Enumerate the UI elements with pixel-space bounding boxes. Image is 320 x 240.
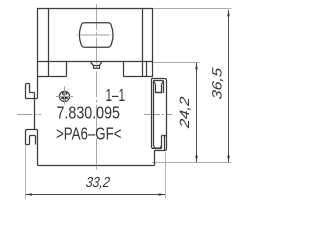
- upper hook inner step: [34, 93, 36, 99]
- hook inner vertical: [164, 136, 166, 151]
- box right wall lower: [152, 62, 154, 78]
- centerline rail axis: [144, 114, 173, 116]
- lower hook inner horizontal: [30, 135, 36, 137]
- box inner wall right: [142, 9, 144, 77]
- box inner wall left: [48, 9, 50, 77]
- rail channel inner left wall: [153, 81, 155, 147]
- flange right inner wall: [146, 62, 148, 77]
- extension line bottom right: [152, 162, 231, 164]
- housing box bottom line: [37, 61, 153, 63]
- extension line bottom right vertical: [165, 152, 167, 199]
- dimension 36,5 arrows: [227, 10, 230, 17]
- centerline hole horizontal: [77, 34, 117, 36]
- latch funnel right slant: [99, 62, 102, 65]
- centerline left clip axis: [18, 114, 42, 116]
- box left wall lower: [37, 62, 39, 77]
- hook step vertical: [161, 136, 163, 149]
- rail channel outer left wall: [152, 79, 162, 149]
- upper hook inner vertical: [29, 84, 31, 93]
- lower hook inner step: [35, 136, 37, 145]
- slot bottom left slant: [154, 146, 155, 148]
- upper hook bottom: [26, 98, 38, 100]
- extension line mid right: [153, 62, 200, 64]
- pocket left slant: [154, 81, 156, 85]
- svg-text:36,5: 36,5: [210, 66, 225, 100]
- screw crosshair vertical: [64, 86, 66, 105]
- lower hook top: [26, 130, 38, 145]
- extension line bottom left vertical: [25, 146, 27, 199]
- slot bottom right slant: [159, 146, 162, 148]
- hook step horizontal: [162, 135, 167, 137]
- barrel hole: [79, 23, 113, 47]
- lower hook inner vertical: [29, 136, 31, 145]
- screw crosshair horizontal: [56, 96, 73, 98]
- screw inner mark: [61, 97, 67, 99]
- left wall above upper hook: [37, 77, 39, 99]
- pocket slot left: [155, 85, 157, 93]
- latch funnel left slant: [91, 62, 94, 65]
- screw slot vertical: [64, 91, 66, 101]
- wall between hooks: [34, 99, 36, 130]
- svg-text:7.830.095: 7.830.095: [57, 103, 121, 123]
- pocket right slant: [162, 81, 164, 85]
- svg-text:>PA6–GF<: >PA6–GF<: [56, 123, 122, 143]
- pocket slot right: [161, 85, 163, 93]
- centerline vertical axis: [96, 4, 98, 172]
- flange right block bottom: [124, 76, 154, 78]
- upper hook top: [26, 84, 30, 99]
- screw prong left: [62, 92, 64, 95]
- left wall lower: [37, 130, 39, 166]
- flange left block bottom: [37, 76, 67, 78]
- svg-text:24,2: 24,2: [177, 95, 192, 129]
- dimension 24,2 line: [196, 63, 198, 162]
- screw prong right: [66, 92, 68, 95]
- dimension 33,2 line: [26, 194, 166, 196]
- dimension 24,2 arrows: [195, 63, 198, 70]
- extension line top right: [153, 8, 231, 10]
- pocket slot bottom: [155, 92, 162, 94]
- svg-text:33,2: 33,2: [85, 175, 110, 191]
- bottom plate: [38, 165, 155, 167]
- rail channel top bridge: [152, 79, 167, 151]
- upper hook inner horizontal: [30, 92, 35, 94]
- screw symbol circle: [59, 91, 69, 101]
- latch box: [94, 66, 100, 69]
- housing box outline: [38, 9, 153, 63]
- flange left block right wall: [66, 62, 68, 77]
- foot left wall: [154, 151, 156, 166]
- flange right block left wall: [123, 62, 125, 77]
- lower hook bottom: [26, 144, 30, 146]
- pocket top: [154, 80, 164, 82]
- dimension 33,2 arrows: [25, 193, 32, 196]
- dimension 36,5 line: [228, 10, 230, 162]
- pocket outer right wall: [163, 81, 165, 94]
- slot bottom thick line: [153, 147, 161, 149]
